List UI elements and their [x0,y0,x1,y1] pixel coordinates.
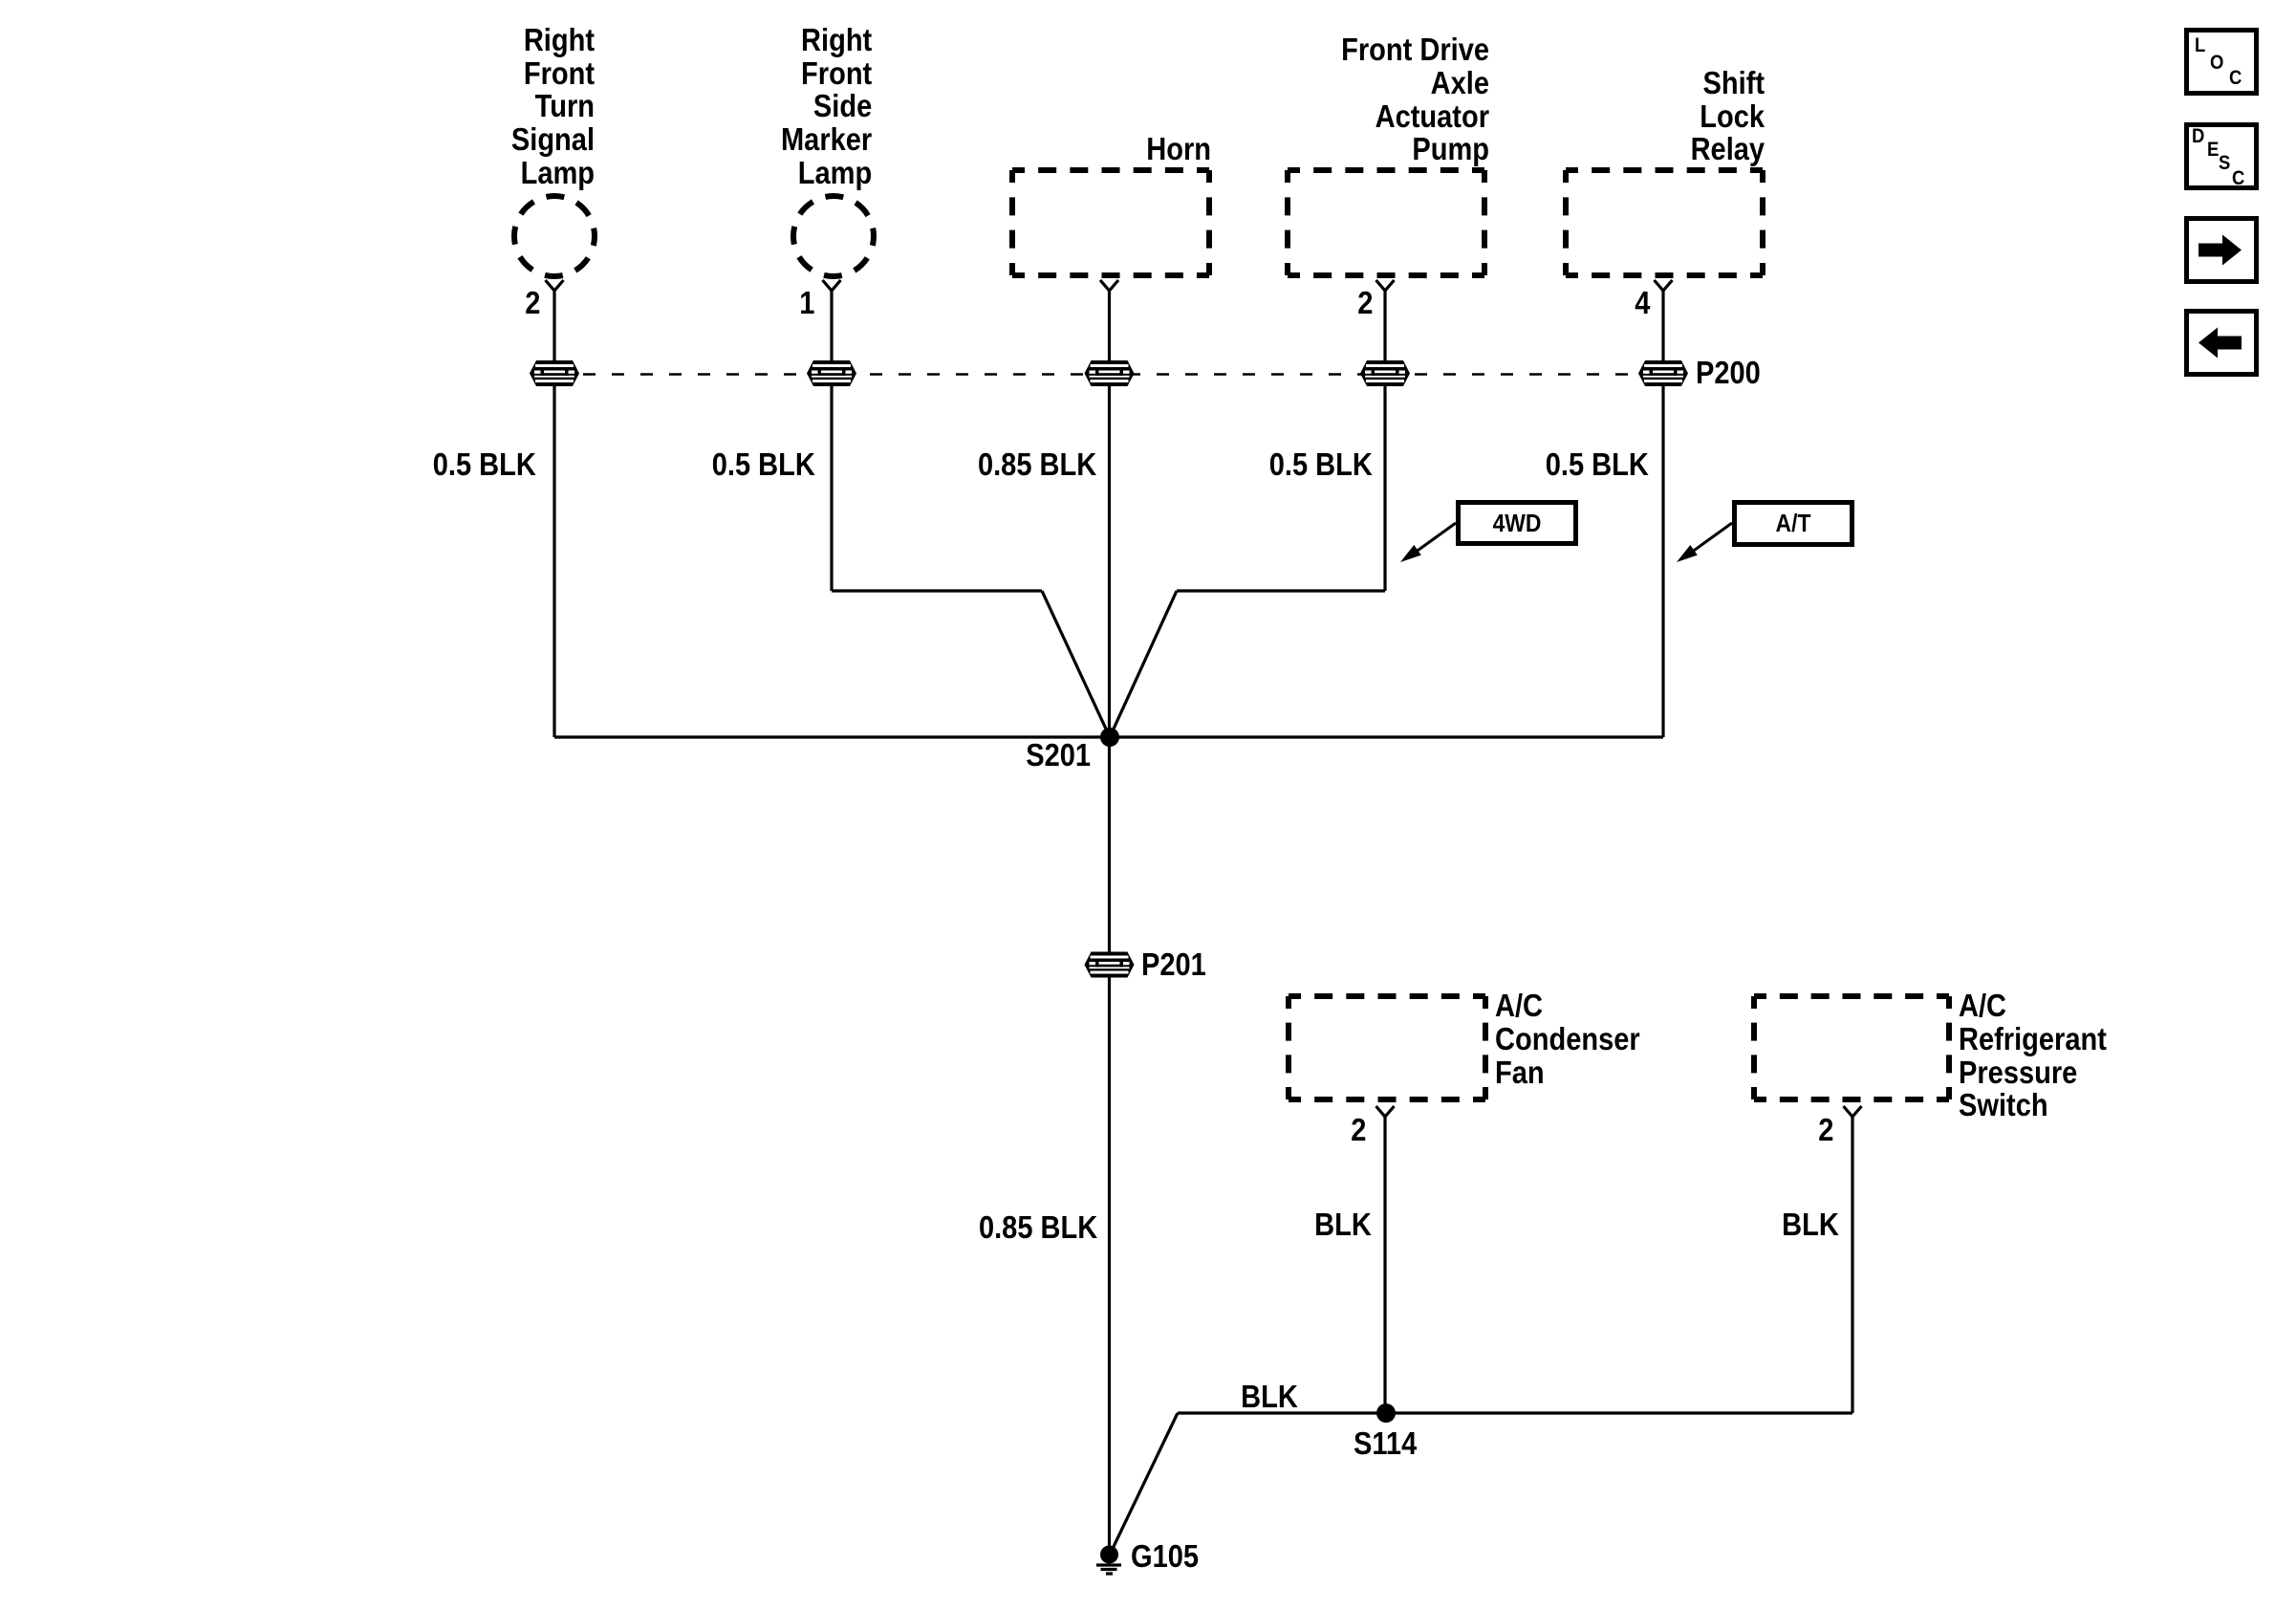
back nav arrow glyph [2199,328,2242,359]
wire label 0.5 BLK relay [1546,448,1649,482]
label: front drive axle actuator pump [1341,33,1489,166]
wire label BLK condenser [1314,1208,1372,1242]
4WD pointer arrow [1415,523,1456,553]
pin number 2 lamp1 [525,287,540,320]
nav letter C2 [2232,168,2244,188]
pin number 4 relay [1635,287,1650,320]
A/T callout box [1735,503,1852,545]
wire label BLK S114 bus [1241,1381,1298,1414]
shift lock relay component box (dashed) [1566,167,1763,173]
pin fork horn [1100,280,1118,291]
wire label 0.85 BLK horn [978,448,1096,482]
wire label 0.5 BLK lamp1 [433,448,536,482]
label: A/C refrigerant pressure switch [1959,990,2107,1122]
connector P200 pass-through on lamp1 wire [530,360,579,386]
wire label 0.85 BLK main [979,1211,1097,1245]
splice node S114 [1376,1403,1396,1423]
4WD callout box [1459,503,1576,544]
nav letter C [2229,68,2242,88]
splice node S201 [1100,728,1119,747]
wire: A/C condenser fan pin2 down to S114 [1383,1117,1386,1413]
wire: S201 ground bus horizontal [554,735,1663,738]
connector P200 pass-through on relay wire [1638,360,1688,386]
wire: lamp1 pin2 down to ground bus [552,291,555,737]
forward nav arrow glyph [2199,235,2242,266]
wire label 0.5 BLK lamp2 [712,448,815,482]
ground label G105 [1131,1540,1199,1574]
callout text 4WD [1463,507,1571,540]
pin number 2 pump [1357,287,1373,320]
wire: pump horizontal jog [1177,589,1385,592]
lamp B1: right front turn signal lamp (dashed circle) [514,196,595,276]
nav letter D [2192,126,2204,146]
pin fork lamp 2 pin 1 [823,280,841,291]
nav letter O [2210,53,2223,73]
nav letter S [2219,153,2230,173]
wire: lamp2 pin1 down [830,291,833,591]
label: right front side marker lamp [781,24,872,190]
A/C condenser fan component box (dashed) [1289,993,1485,999]
wire: P201 down to G105 [1108,977,1111,1556]
connector P201 pass-through [1085,952,1135,978]
wire: lamp2 horizontal jog [832,589,1042,592]
pin fork A/C condenser fan pin 2 [1376,1106,1395,1117]
label: horn [1146,133,1211,166]
wire: S114 bus horizontal [1178,1411,1852,1414]
DESC nav box [2187,125,2257,188]
lamp B2: right front side marker lamp (dashed circle) [793,196,874,276]
LOC nav box [2187,31,2257,94]
wire label BLK switch [1782,1208,1839,1242]
pin number 1 lamp2 [799,287,814,320]
splice label S114 [1354,1427,1417,1461]
connector P200 pass-through on horn wire [1085,360,1135,386]
ground symbol G105 [1096,1565,1121,1574]
connector P200 pass-through on pump wire [1360,360,1410,386]
back nav box [2187,312,2257,375]
label: right front turn signal lamp [511,24,595,190]
wire: pump diagonal into S201 [1110,591,1177,737]
connector label P201 [1141,948,1206,982]
wire: relay pin4 down to ground bus [1661,291,1664,737]
pin fork relay pin 4 [1655,280,1673,291]
horn component box (dashed) [1012,167,1209,173]
ground node G105 dot [1100,1546,1118,1564]
splice label S201 [1026,739,1091,772]
wire: S114 bus diagonal down to G105 [1110,1413,1178,1555]
A/T pointer arrow [1691,523,1732,553]
connector P200 pass-through on lamp2 wire [807,360,856,386]
wire: horn down through S201 to P201 [1108,291,1111,952]
wire label 0.5 BLK pump [1269,448,1373,482]
A/C refrigerant pressure switch component box (dashed) [1754,993,1949,999]
callout text A/T [1740,507,1848,540]
nav letter E [2207,140,2219,160]
forward nav box [2187,219,2257,282]
nav letter L [2195,35,2205,55]
wire: A/C refrigerant pressure switch pin2 down to S114 bus [1851,1117,1853,1413]
wire: pump pin2 down [1383,291,1386,591]
pin number 2 condenser fan [1351,1114,1366,1147]
pin number 2 pressure switch [1818,1114,1833,1147]
label: A/C condenser fan [1495,990,1640,1089]
label: shift lock relay [1691,67,1765,166]
dashed harness line through P200 [554,373,1663,376]
pin fork lamp 1 pin 2 [546,280,564,291]
wire: lamp2 diagonal into S201 [1042,591,1110,737]
pin fork A/C refrigerant pressure switch pin 2 [1844,1106,1862,1117]
connector label P200 [1696,357,1761,390]
front drive axle actuator pump component box (dashed) [1288,167,1484,173]
pin fork pump pin 2 [1376,280,1395,291]
